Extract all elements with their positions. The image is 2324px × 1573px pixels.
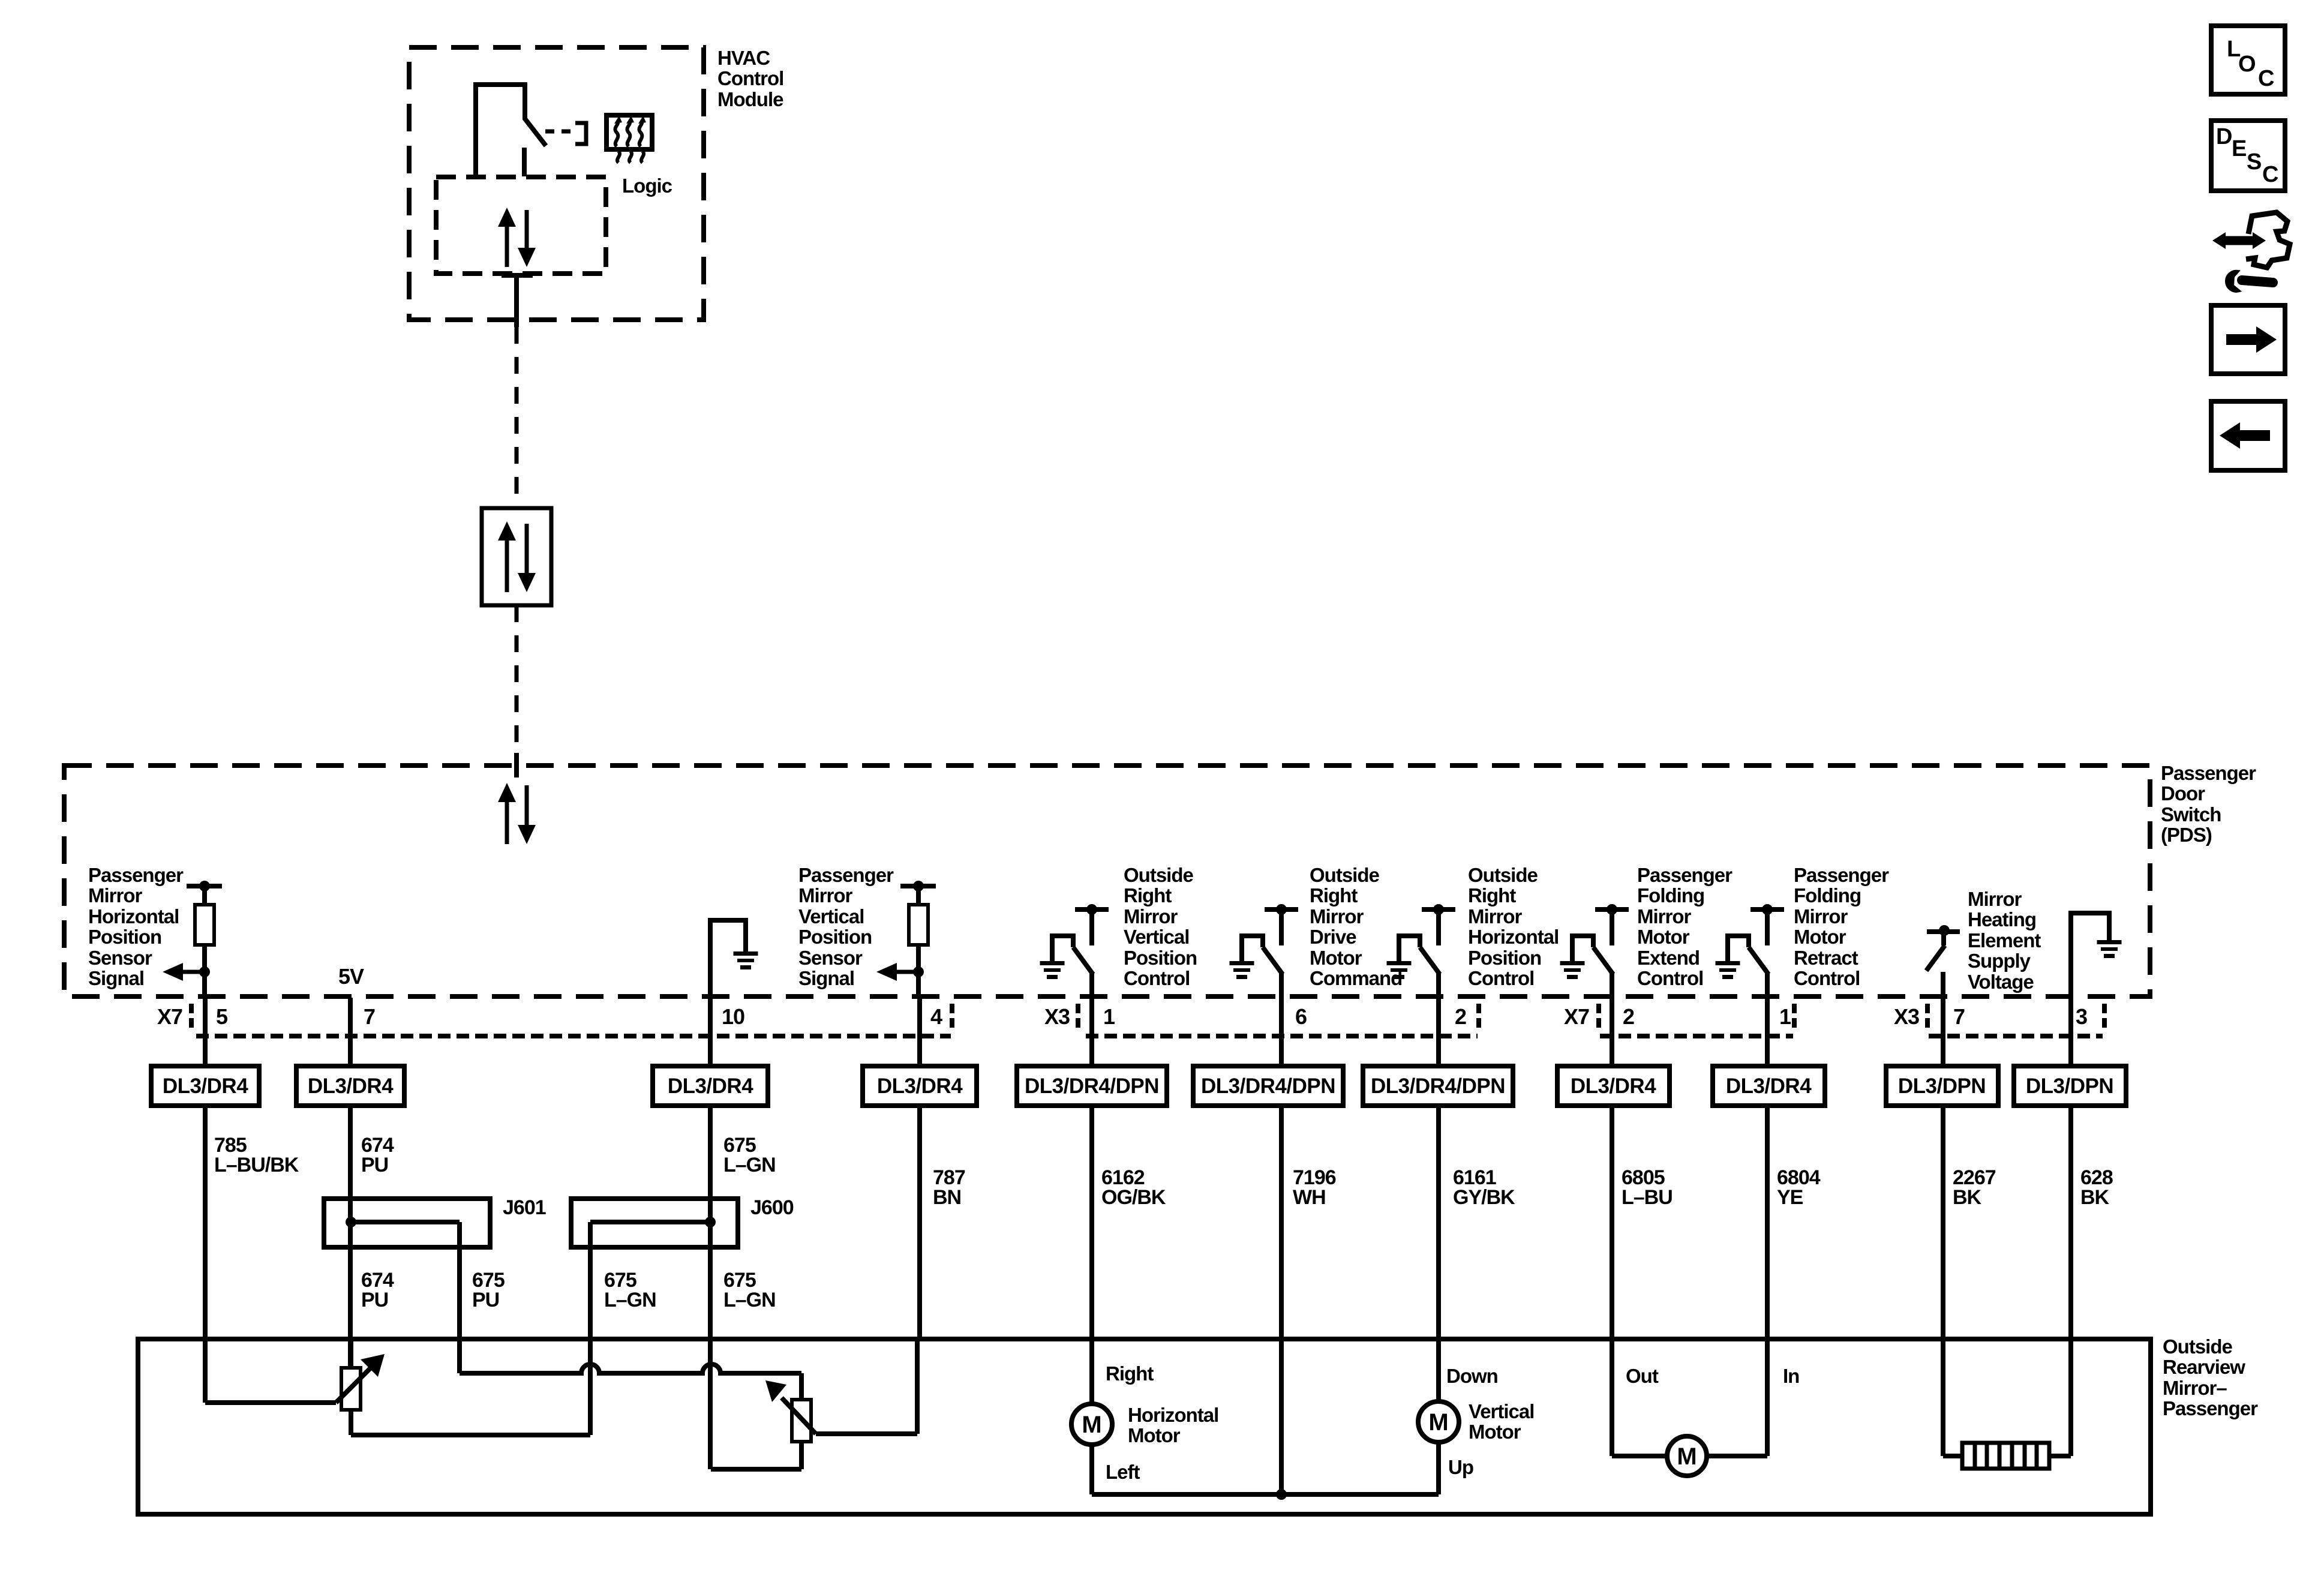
Passenger Folding Mirror Motor Extend Control switch: [1560, 904, 1629, 998]
svg-text:5: 5: [216, 1004, 228, 1029]
svg-text:Down: Down: [1446, 1365, 1498, 1387]
pot1 bottom wire to J600 branch: [351, 1433, 590, 1437]
svg-text:E: E: [2232, 136, 2247, 161]
wire label 674 PU below J601: [361, 1269, 394, 1311]
connector pin label 3 at x=3460: [2076, 1004, 2087, 1029]
connector box DL3/DR4/DPN at x=1820: [1017, 1066, 1167, 1106]
svg-text:5V: 5V: [338, 964, 364, 989]
svg-text:Drive: Drive: [1310, 926, 1356, 948]
wire 787 to mirror: [917, 1106, 922, 1339]
wire label 628 BK: [2080, 1166, 2113, 1209]
Outside Right Mirror Drive Motor Command switch: [1230, 904, 1299, 998]
svg-text:Position: Position: [1468, 947, 1541, 969]
motor common junction dot: [1276, 1489, 1287, 1500]
ground return wire pin 10: [710, 920, 746, 998]
svg-text:PU: PU: [472, 1289, 499, 1311]
svg-text:Control: Control: [717, 67, 783, 89]
svg-text:Position: Position: [798, 926, 872, 948]
svg-text:L–GN: L–GN: [723, 1154, 776, 1176]
splice J601 label: [503, 1196, 546, 1219]
svg-text:DL3/DPN: DL3/DPN: [2026, 1074, 2113, 1098]
wire label 787 BN: [933, 1166, 965, 1209]
vertical motor: [1418, 1401, 1459, 1442]
connector pin label 4 at x=1551: [930, 1004, 942, 1029]
svg-text:L–BU/BK: L–BU/BK: [214, 1154, 299, 1176]
relay actuator dashed link: [545, 130, 571, 134]
svg-text:Mirror: Mirror: [88, 884, 143, 906]
wire 628 to heating element: [2068, 1106, 2073, 1456]
svg-text:Outside: Outside: [2163, 1335, 2232, 1358]
wire 785 to mirror: [203, 1106, 208, 1403]
Passenger Door Switch (PDS) label: [2161, 762, 2256, 846]
connector separator dash at x=3508: [2102, 1004, 2107, 1028]
dashed data wire from HVAC module: [515, 327, 519, 508]
svg-text:WH: WH: [1293, 1186, 1326, 1209]
svg-text:10: 10: [722, 1004, 744, 1029]
svg-text:DL3/DR4/DPN: DL3/DR4/DPN: [1025, 1074, 1159, 1098]
Outside Right Mirror Horizontal Position Control label: [1468, 864, 1559, 989]
folding motor wires: [1612, 1454, 1767, 1458]
wire 6161 to vertical motor: [1436, 1106, 1441, 1401]
svg-text:Passenger: Passenger: [1637, 864, 1733, 886]
logic dashed sub-box: [436, 177, 606, 274]
wire label 674 PU: [361, 1134, 394, 1176]
svg-text:Folding: Folding: [1637, 884, 1704, 906]
connector box DL3/DR4 at x=1184: [653, 1066, 768, 1106]
svg-text:Left: Left: [1106, 1461, 1140, 1483]
pot2 bottom wire: [711, 1467, 801, 1472]
wire 675 PU from J601: [457, 1247, 462, 1373]
svg-text:Sensor: Sensor: [798, 947, 863, 969]
svg-text:L–GN: L–GN: [723, 1289, 776, 1311]
svg-text:Horizontal: Horizontal: [88, 905, 179, 927]
svg-text:HVAC: HVAC: [717, 47, 770, 69]
svg-text:C: C: [2258, 66, 2274, 91]
Vertical Motor label: [1469, 1400, 1534, 1443]
svg-text:Outside: Outside: [1468, 864, 1538, 886]
vertical position sensor resistor and signal arrow: [876, 881, 936, 998]
svg-text:DL3/DR4: DL3/DR4: [163, 1074, 248, 1098]
svg-text:Horizontal: Horizontal: [1128, 1404, 1218, 1426]
svg-text:Motor: Motor: [1794, 926, 1846, 948]
svg-text:Vertical: Vertical: [798, 905, 864, 927]
connector box DL3/DR4 at x=2948: [1713, 1066, 1825, 1106]
svg-text:OG/BK: OG/BK: [1101, 1186, 1166, 1209]
connector separator dash at x=319: [189, 1004, 194, 1028]
connector pin label 1 at x=1839: [1103, 1004, 1115, 1029]
svg-text:X7: X7: [1564, 1004, 1589, 1029]
Passenger Door Switch dashed box: [64, 766, 2150, 996]
svg-text:Command: Command: [1310, 967, 1402, 989]
svg-text:DL3/DR4: DL3/DR4: [308, 1074, 394, 1098]
svg-text:1: 1: [1103, 1004, 1115, 1029]
Horizontal Motor label: [1128, 1404, 1218, 1446]
ground symbol for pin 10: [734, 951, 758, 969]
svg-text:D: D: [2216, 124, 2232, 149]
svg-text:Motor: Motor: [1310, 947, 1362, 969]
connector pin label 6 at x=2159: [1295, 1004, 1307, 1029]
svg-text:BK: BK: [1953, 1186, 1982, 1209]
svg-text:Out: Out: [1626, 1365, 1659, 1387]
Passenger Mirror Vertical Position Sensor Signal label: [798, 864, 894, 989]
connector separator dash at x=2991: [1792, 1004, 1797, 1028]
Passenger Folding Mirror Motor Retract Control switch: [1716, 904, 1785, 998]
heated mirror element icon in HVAC module: [606, 115, 652, 163]
svg-text:Passenger: Passenger: [2163, 1397, 2258, 1419]
svg-text:Horizontal: Horizontal: [1468, 926, 1559, 948]
svg-text:Mirror: Mirror: [1468, 905, 1523, 927]
horizontal position sensor resistor and signal arrow: [163, 881, 222, 998]
HVAC Control Module dashed box: [409, 47, 704, 320]
svg-text:S: S: [2247, 149, 2262, 175]
svg-text:DL3/DR4: DL3/DR4: [1726, 1074, 1812, 1098]
Passenger Folding Mirror Motor Extend Control label: [1637, 864, 1733, 989]
svg-text:PU: PU: [361, 1154, 388, 1176]
folding mirror motor: [1667, 1436, 1707, 1476]
svg-text:Motor: Motor: [1469, 1421, 1521, 1443]
DESC icon box: [2211, 121, 2285, 191]
pot1 wiper arrow: [205, 1354, 385, 1403]
svg-text:Mirror: Mirror: [1124, 905, 1178, 927]
horizontal position sensor potentiometer: [341, 1339, 361, 1435]
svg-text:DL3/DR4/DPN: DL3/DR4/DPN: [1371, 1074, 1505, 1098]
connector separator dash at x=2465: [1476, 1004, 1481, 1028]
svg-text:Door: Door: [2161, 782, 2205, 804]
svg-text:DL3/DR4: DL3/DR4: [668, 1074, 753, 1098]
svg-text:DL3/DR4: DL3/DR4: [877, 1074, 963, 1098]
connector box DL3/DR4 at x=1533: [863, 1066, 977, 1106]
connector pin label X7 at x=262: [157, 1004, 182, 1029]
wire label 675 PU below J601: [472, 1269, 505, 1311]
connector box DL3/DR4 at x=2689: [1557, 1066, 1670, 1106]
svg-text:2: 2: [1455, 1004, 1466, 1029]
ground symbol for pin 3: [2097, 940, 2122, 958]
svg-text:1: 1: [1779, 1004, 1791, 1029]
wire 675 pin10 to mirror: [708, 1106, 713, 1469]
svg-text:7: 7: [1953, 1004, 1965, 1029]
svg-text:X3: X3: [1894, 1004, 1919, 1029]
svg-text:M: M: [1677, 1443, 1697, 1470]
Out label: [1626, 1365, 1659, 1387]
svg-text:2: 2: [1623, 1004, 1634, 1029]
previous page arrow icon: [2211, 401, 2285, 470]
serial data arrows inside PDS: [498, 783, 536, 844]
connector separator dash at x=1797: [1076, 1004, 1080, 1028]
connector pin label X7 at x=2607: [1564, 1004, 1589, 1029]
svg-text:M: M: [1428, 1409, 1448, 1436]
svg-text:Sensor: Sensor: [88, 947, 152, 969]
pin wires from PDS to connectors: [205, 998, 2071, 1066]
svg-text:Heating: Heating: [1968, 908, 2036, 930]
wire stub crossing PDS edge: [514, 753, 519, 778]
HVAC Control Module label: [717, 47, 783, 110]
connector pin label 1 at x=2966: [1779, 1004, 1791, 1029]
splice J600 internal link: [590, 1217, 716, 1247]
adjust mirror wrench icon: [2212, 212, 2290, 292]
wire 6162 to horizontal motor: [1089, 1106, 1094, 1404]
svg-text:Right: Right: [1124, 884, 1172, 906]
svg-text:L–GN: L–GN: [604, 1289, 656, 1311]
svg-text:Mirror: Mirror: [1794, 905, 1848, 927]
splice J600 box: [571, 1199, 738, 1247]
svg-text:BN: BN: [933, 1186, 961, 1209]
serial data arrows in logic box: [498, 208, 536, 267]
5V supply wire pin 7: [348, 998, 353, 1066]
svg-text:C: C: [2262, 162, 2278, 187]
svg-text:Motor: Motor: [1637, 926, 1690, 948]
LOC icon box: [2211, 26, 2285, 94]
Outside Right Mirror Vertical Position Control switch: [1040, 904, 1109, 998]
svg-text:J600: J600: [750, 1196, 794, 1219]
svg-text:Control: Control: [1637, 967, 1703, 989]
connector box DL3/DR4/DPN at x=2397: [1363, 1066, 1513, 1106]
svg-text:Logic: Logic: [622, 175, 672, 197]
svg-text:Passenger: Passenger: [88, 864, 184, 886]
svg-text:Position: Position: [88, 926, 161, 948]
connector pin label 2 at x=2705: [1623, 1004, 1634, 1029]
vertical motor bottom wire: [1436, 1442, 1441, 1494]
wire 6804 to folding motor: [1765, 1106, 1770, 1456]
Passenger Mirror Horizontal Position Sensor Signal label: [88, 864, 184, 989]
svg-text:Passenger: Passenger: [798, 864, 894, 886]
wire label 6161 GY/BK: [1453, 1166, 1515, 1209]
relay coil-contact in HVAC module: [476, 85, 546, 176]
wire label 6804 YE: [1777, 1166, 1821, 1209]
connector dotted boundary line: [196, 1034, 2103, 1038]
svg-text:Mirror: Mirror: [798, 884, 853, 906]
svg-text:J601: J601: [503, 1196, 546, 1219]
Passenger Folding Mirror Motor Retract Control label: [1794, 864, 1889, 989]
svg-text:Up: Up: [1448, 1456, 1473, 1478]
svg-text:Outside: Outside: [1124, 864, 1193, 886]
connector box DL3/DPN at x=3237: [1886, 1066, 1998, 1106]
svg-text:Extend: Extend: [1637, 947, 1700, 969]
wire from logic box to HVAC module edge: [502, 275, 533, 327]
serial data arrows in interface box: [498, 521, 536, 592]
svg-text:Outside: Outside: [1310, 864, 1379, 886]
connector separator dash at x=2665: [1596, 1004, 1601, 1028]
splice J600 label: [750, 1196, 794, 1219]
svg-text:Supply: Supply: [1968, 950, 2031, 972]
connector separator dash at x=1587: [950, 1004, 954, 1028]
connector pin label 7 at x=3256: [1953, 1004, 1965, 1029]
splice J601 internal link: [346, 1217, 460, 1247]
svg-text:Control: Control: [1468, 967, 1534, 989]
connector pin label 10 at x=1203: [722, 1004, 744, 1029]
svg-text:Retract: Retract: [1794, 947, 1858, 969]
connector box DL3/DR4 at x=584: [296, 1066, 404, 1106]
pot2 wiper wire to pin 4: [915, 1339, 920, 1434]
pot2 wiper arrow: [765, 1380, 917, 1434]
wire label 6805 L-BU: [1622, 1166, 1673, 1209]
ground wire pin 3: [2071, 913, 2109, 998]
svg-text:Rearview: Rearview: [2163, 1356, 2245, 1378]
svg-text:Right: Right: [1310, 884, 1358, 906]
svg-text:DL3/DR4: DL3/DR4: [1571, 1074, 1656, 1098]
wire label 2267 BK: [1953, 1166, 1996, 1209]
connector pin label 2 at x=2425: [1455, 1004, 1466, 1029]
wire 6805 to folding motor: [1610, 1106, 1614, 1456]
wire 7196 to motor common: [1279, 1106, 1284, 1494]
svg-text:Position: Position: [1124, 947, 1197, 969]
relay actuator contact bracket: [575, 123, 586, 144]
svg-text:Passenger: Passenger: [2161, 762, 2256, 784]
svg-text:Folding: Folding: [1794, 884, 1861, 906]
splice J601 box: [324, 1199, 490, 1247]
svg-text:Signal: Signal: [798, 967, 854, 989]
svg-text:YE: YE: [1777, 1186, 1803, 1209]
svg-text:Vertical: Vertical: [1469, 1400, 1534, 1422]
svg-text:6: 6: [1295, 1004, 1307, 1029]
svg-text:(PDS): (PDS): [2161, 824, 2212, 846]
horizontal motor bottom wire: [1089, 1445, 1094, 1494]
svg-text:Passenger: Passenger: [1794, 864, 1889, 886]
wire 2267 to heating element: [1941, 1106, 1945, 1456]
Logic label: [622, 175, 672, 197]
Outside Rearview Mirror-Passenger label: [2163, 1335, 2258, 1419]
svg-text:Mirror–: Mirror–: [2163, 1377, 2227, 1399]
svg-text:Module: Module: [717, 88, 783, 110]
svg-text:Vertical: Vertical: [1124, 926, 1189, 948]
connector pin label X3 at x=1741: [1044, 1004, 1070, 1029]
svg-text:X3: X3: [1044, 1004, 1070, 1029]
Outside Right Mirror Horizontal Position Control switch: [1387, 904, 1456, 998]
svg-text:Signal: Signal: [88, 967, 144, 989]
vertical position sensor potentiometer: [792, 1373, 811, 1469]
Outside Right Mirror Vertical Position Control label: [1124, 864, 1197, 989]
next page arrow icon: [2211, 305, 2285, 374]
svg-text:O: O: [2238, 52, 2256, 77]
connector box DL3/DPN at x=3450: [2014, 1066, 2126, 1106]
svg-text:BK: BK: [2080, 1186, 2110, 1209]
connector pin label 7 at x=606: [364, 1004, 375, 1029]
Left label: [1106, 1461, 1140, 1483]
Right label: [1106, 1362, 1154, 1385]
Outside Right Mirror Drive Motor Command label: [1310, 864, 1402, 989]
svg-text:3: 3: [2076, 1004, 2087, 1029]
mirror heating element: [1962, 1443, 2049, 1469]
wire label 6162 OG/BK: [1101, 1166, 1166, 1209]
svg-text:X7: X7: [157, 1004, 182, 1029]
In label: [1783, 1365, 1799, 1387]
svg-text:Mirror: Mirror: [1310, 905, 1364, 927]
svg-text:Voltage: Voltage: [1968, 971, 2034, 993]
dashed data wire to passenger door switch: [515, 605, 519, 753]
svg-text:Element: Element: [1968, 929, 2041, 951]
svg-text:7: 7: [364, 1004, 375, 1029]
wire 675 L-GN from J600: [588, 1247, 593, 1435]
connector separator dash at x=3213: [1925, 1004, 1930, 1028]
wire label 675 L-GN: [723, 1134, 776, 1176]
wire label 7196 WH: [1293, 1166, 1336, 1209]
Down label: [1446, 1365, 1498, 1387]
svg-text:DL3/DR4/DPN: DL3/DR4/DPN: [1201, 1074, 1335, 1098]
heating element stub wires: [1943, 1454, 2071, 1458]
svg-text:4: 4: [930, 1004, 942, 1029]
675 PU wire with crossover hops: [460, 1364, 801, 1373]
Mirror Heating Element Supply Voltage label: [1968, 888, 2041, 993]
Outside Rearview Mirror-Passenger box: [138, 1339, 2151, 1514]
svg-text:Motor: Motor: [1128, 1424, 1181, 1446]
connector pin label X3 at x=3157: [1894, 1004, 1919, 1029]
connector box DL3/DR4 at x=342: [151, 1066, 259, 1106]
Mirror Heating Element Supply Voltage switch: [1926, 925, 1960, 998]
svg-text:Mirror: Mirror: [1637, 905, 1692, 927]
svg-text:Control: Control: [1124, 967, 1190, 989]
svg-text:DL3/DPN: DL3/DPN: [1898, 1074, 1986, 1098]
wire label 675 L-GN below J600 right: [723, 1269, 776, 1311]
svg-text:PU: PU: [361, 1289, 388, 1311]
svg-text:M: M: [1082, 1412, 1101, 1438]
svg-text:GY/BK: GY/BK: [1453, 1186, 1515, 1209]
svg-text:In: In: [1783, 1365, 1799, 1387]
wire 674 to J601 and pot: [348, 1106, 353, 1368]
serial data interface box: [482, 508, 551, 605]
svg-text:Right: Right: [1468, 884, 1516, 906]
connector pin label 5 at x=360: [216, 1004, 228, 1029]
svg-text:Switch: Switch: [2161, 803, 2221, 825]
svg-text:Right: Right: [1106, 1362, 1154, 1385]
Up label: [1448, 1456, 1473, 1478]
svg-text:L–BU: L–BU: [1622, 1186, 1673, 1209]
svg-text:Mirror: Mirror: [1968, 888, 2022, 910]
horizontal motor: [1071, 1404, 1112, 1445]
motor common rail: [1092, 1492, 1439, 1497]
wire label 785 L-BU/BK: [214, 1134, 299, 1176]
5V supply label: [338, 964, 364, 989]
wire label 675 L-GN below J600 left: [604, 1269, 656, 1311]
connector box DL3/DR4/DPN at x=2114: [1193, 1066, 1343, 1106]
svg-text:Control: Control: [1794, 967, 1860, 989]
